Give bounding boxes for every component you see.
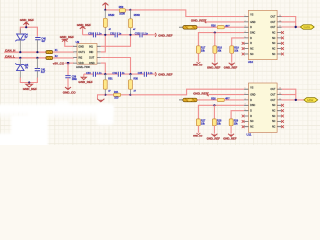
ground GND_CO col1 xyxy=(196,62,200,64)
svg-text:NC: NC xyxy=(272,54,276,56)
wire row5' with bend down to R29 xyxy=(231,111,244,119)
junction row4' xyxy=(213,104,215,106)
wire GND_REF port to U1 pin1 xyxy=(65,42,74,46)
resistor R26 horizontal xyxy=(217,98,224,101)
svg-text:5V: 5V xyxy=(25,36,28,39)
wire row5 with bend down to R19 xyxy=(232,38,244,46)
svg-text:1.1n: 1.1n xyxy=(148,72,153,75)
svg-text:DNC: DNC xyxy=(250,33,255,35)
svg-text:CAN1: CAN1 xyxy=(303,26,310,29)
wire R18 to ground xyxy=(214,53,216,62)
svg-text:NC: NC xyxy=(272,105,276,107)
svg-text:14: 14 xyxy=(279,88,281,90)
junction xyxy=(19,57,21,59)
svg-text:1.1n: 1.1n xyxy=(143,33,148,36)
capacitor C33 xyxy=(93,72,95,77)
resistor R52 vertical col1 xyxy=(104,10,106,34)
svg-text:OUT: OUT xyxy=(271,95,276,97)
wire GND_REF to IC1 pin2 xyxy=(206,21,244,23)
wire R27 to ground xyxy=(197,126,199,133)
svg-text:NC: NC xyxy=(272,38,276,40)
power port GND_REF top-left xyxy=(23,22,29,27)
junction xyxy=(104,34,106,36)
svg-text:1.1n: 1.1n xyxy=(97,72,102,75)
svg-text:3: 3 xyxy=(245,26,246,28)
svg-text:R50: R50 xyxy=(119,6,124,9)
bottom rail wire xyxy=(105,94,130,96)
svg-text:5V: 5V xyxy=(25,66,28,69)
sheet background xyxy=(0,0,320,145)
svg-text:GND_CO: GND_CO xyxy=(193,65,203,67)
digital isolator U1 xyxy=(73,44,101,65)
ferrite bead L1 xyxy=(46,51,53,54)
svg-text:GND_CO: GND_CO xyxy=(193,135,203,137)
junction xyxy=(104,94,106,96)
svg-text:R21: R21 xyxy=(114,91,119,94)
zener D1 xyxy=(15,34,25,41)
svg-text:NC: NC xyxy=(272,43,276,45)
resistor R55 vertical col2 lower xyxy=(130,74,132,95)
junction xyxy=(28,81,30,83)
ground GND_REF col2 lower xyxy=(211,134,217,137)
resistor R16 horizontal xyxy=(217,26,224,29)
junction xyxy=(19,51,21,53)
resistor R53 vertical col2 xyxy=(130,10,132,34)
zener D2 xyxy=(15,63,25,70)
capacitor C3 xyxy=(65,76,70,78)
power port GND_REF left of lower cap row xyxy=(83,74,85,77)
wire row4 with bend down to R17 xyxy=(198,33,244,46)
wire L4 to R26 xyxy=(197,99,217,101)
svg-text:GND_REF: GND_REF xyxy=(207,66,221,70)
svg-text:NC: NC xyxy=(250,127,254,129)
svg-text:12: 12 xyxy=(279,26,281,28)
resistor R28 pull col2 lower xyxy=(212,119,216,126)
wire R17 to ground xyxy=(197,53,199,62)
wire down to C3 xyxy=(67,63,69,76)
svg-text:GND: GND xyxy=(78,45,84,48)
ground arrow left of rail xyxy=(97,99,104,102)
svg-text:R56: R56 xyxy=(134,78,139,81)
capacitor C35 xyxy=(144,72,146,77)
svg-text:GND_REF: GND_REF xyxy=(60,35,75,39)
capacitor C30 xyxy=(93,32,95,37)
wires U2 OUT pins to port xyxy=(282,17,301,28)
wire junction down to R18 xyxy=(214,33,216,46)
svg-text:12: 12 xyxy=(279,98,281,100)
svg-text:CAN_H: CAN_H xyxy=(5,49,15,53)
svg-text:NC: NC xyxy=(272,49,276,51)
svg-text:OUT: OUT xyxy=(271,100,276,102)
svg-text:U9: U9 xyxy=(76,40,80,44)
ground arrow GND_CO xyxy=(65,87,71,90)
wire +5V_CO to U1 pin4 xyxy=(65,62,74,64)
svg-text:OUT: OUT xyxy=(271,16,276,18)
lower capacitor row wire xyxy=(84,73,155,75)
junction xyxy=(104,73,106,75)
svg-text:4n7: 4n7 xyxy=(41,40,46,43)
upper capacitor row wire xyxy=(83,34,155,36)
no-connect X marks U2 left xyxy=(242,42,245,56)
wire CAN_L bus xyxy=(4,57,46,59)
wire U1 pin1 to col2 up xyxy=(101,35,131,46)
svg-text:VS: VS xyxy=(250,15,254,17)
wire row4' with bend down to R27 xyxy=(198,105,244,119)
white erased region bottom-left xyxy=(0,101,114,150)
port CAN1 xyxy=(300,25,314,29)
svg-text:100n: 100n xyxy=(72,78,78,81)
svg-text:IND: IND xyxy=(89,51,94,54)
svg-text:IN1: IN1 xyxy=(89,45,94,48)
resistor R29 pull col3 lower xyxy=(229,119,233,126)
svg-text:GND_REF: GND_REF xyxy=(224,66,238,70)
svg-text:2: 2 xyxy=(245,20,246,22)
svg-text:C30: C30 xyxy=(88,33,93,36)
svg-text:CAN_L: CAN_L xyxy=(5,54,15,58)
wire bottom bridge xyxy=(20,78,37,83)
svg-text:U10: U10 xyxy=(248,60,254,64)
no-connect X marks U2 right xyxy=(281,31,284,55)
svg-text:OUT: OUT xyxy=(271,89,276,91)
wire U1 pin3 to col2 down xyxy=(101,58,131,74)
junction xyxy=(36,51,38,53)
svg-text:OUT: OUT xyxy=(89,57,95,60)
svg-text:GND_REF: GND_REF xyxy=(158,73,173,77)
junction xyxy=(104,9,106,11)
ferrite bead L2 xyxy=(46,56,53,59)
svg-text:4: 4 xyxy=(245,31,246,33)
svg-text:C32: C32 xyxy=(135,33,140,36)
junction xyxy=(295,26,297,28)
wire CAN_H bus xyxy=(4,51,46,53)
wire L2 to U1 xyxy=(53,57,74,59)
wires U3 OUT pins to port xyxy=(282,89,304,100)
svg-text:NC: NC xyxy=(272,127,276,129)
resistor R54 vertical col1 lower xyxy=(104,74,106,95)
svg-text:C34: C34 xyxy=(113,72,118,75)
svg-text:2: 2 xyxy=(245,93,246,95)
wire U1 pin4 to col1 down xyxy=(101,63,106,73)
svg-text:R51: R51 xyxy=(108,78,113,81)
svg-text:GND_REF: GND_REF xyxy=(158,33,173,37)
svg-text:R52R: R52R xyxy=(108,14,114,17)
junction xyxy=(129,9,131,11)
svg-text:R16: R16 xyxy=(211,25,216,28)
CAN transceiver U3 xyxy=(244,83,281,132)
svg-text:1.1n: 1.1n xyxy=(97,33,102,36)
capacitor C31 xyxy=(115,32,117,37)
wire R26 to IC2 pin3 xyxy=(224,99,244,101)
svg-text:DNC: DNC xyxy=(250,105,255,107)
ground GND_REF col2 xyxy=(212,63,218,66)
svg-text:IN2: IN2 xyxy=(78,57,83,60)
svg-text:GND_REF: GND_REF xyxy=(20,18,35,22)
junction xyxy=(36,57,38,59)
wire U1 pin2 to col1 up xyxy=(101,35,106,52)
wire R16 to IC1 pin3 xyxy=(224,26,244,28)
ground GND_REF col3 xyxy=(229,63,235,66)
power port GND_REF bottom arrow xyxy=(26,83,33,88)
power port GND_REF right of cap row xyxy=(155,33,156,37)
ground GND_CO col1 lower xyxy=(196,133,200,135)
wire junction down to R28 xyxy=(213,105,215,119)
svg-text:100R: 100R xyxy=(119,12,125,15)
svg-text:NC: NC xyxy=(272,111,276,113)
resistor R17 pull col1 xyxy=(196,46,200,54)
power port GND_REF right of lower cap row xyxy=(155,72,156,76)
svg-text:GND_REF: GND_REF xyxy=(77,23,92,27)
ferrite bead L4 xyxy=(179,99,183,101)
resistor R15 horizontal top xyxy=(106,9,131,11)
resistor R21 horizontal on rail xyxy=(114,93,121,96)
svg-text:NC: NC xyxy=(272,33,276,35)
wire L1 to U1 xyxy=(53,51,74,53)
svg-text:GND_REF: GND_REF xyxy=(23,87,38,91)
svg-text:+5V_CO: +5V_CO xyxy=(53,61,65,65)
capacitor C32 xyxy=(140,32,142,37)
resistor R27 pull col1 lower xyxy=(196,119,200,126)
junction square xyxy=(67,62,69,64)
svg-text:R26: R26 xyxy=(211,97,216,100)
svg-text:OUT: OUT xyxy=(271,22,276,24)
svg-text:OND: OND xyxy=(89,62,95,65)
svg-text:VS: VS xyxy=(250,87,254,89)
power port GND_REF left of cap row xyxy=(82,29,84,35)
wire to IC1 pin 1 xyxy=(131,10,245,17)
svg-text:1: 1 xyxy=(245,15,246,17)
svg-text:100: 100 xyxy=(114,96,119,99)
wire GND_REF to IC2 pin2 xyxy=(209,94,245,96)
wire L3 to R16 xyxy=(197,26,217,28)
wire R28 to ground xyxy=(213,126,215,134)
junction row4 xyxy=(214,31,216,33)
svg-text:OUT1: OUT1 xyxy=(78,51,85,54)
svg-text:14: 14 xyxy=(279,15,281,17)
svg-text:U11: U11 xyxy=(247,132,252,136)
svg-text:1: 1 xyxy=(245,88,246,90)
CAN transceiver U2 xyxy=(244,10,281,59)
wire top bridge xyxy=(20,27,37,37)
svg-text:3: 3 xyxy=(245,98,246,100)
wire R19 to ground xyxy=(231,53,233,62)
svg-text:VDD: VDD xyxy=(78,62,83,65)
svg-text:C35: C35 xyxy=(138,72,143,75)
junction xyxy=(295,99,297,101)
svg-text:C33: C33 xyxy=(86,72,91,75)
junction xyxy=(129,94,131,96)
svg-text:GND: GND xyxy=(250,22,255,24)
svg-text:GND_REF: GND_REF xyxy=(191,18,206,22)
svg-text:GND_CO: GND_CO xyxy=(63,91,77,95)
capacitor C34 xyxy=(118,72,120,77)
wire rail to IC2 pin 1 xyxy=(131,89,245,95)
svg-text:GND: GND xyxy=(250,95,255,97)
svg-text:NC: NC xyxy=(250,121,254,123)
svg-text:5: 5 xyxy=(245,36,246,38)
resistor R18 pull col2 xyxy=(213,46,217,54)
svg-text:ACML-7400: ACML-7400 xyxy=(76,65,90,69)
svg-text:GND_REF: GND_REF xyxy=(78,80,93,84)
wire rail to ground left xyxy=(98,95,106,99)
capacitor C2 xyxy=(35,69,40,71)
svg-text:NC: NC xyxy=(250,54,254,56)
svg-text:13: 13 xyxy=(279,20,281,22)
ferrite bead L3 xyxy=(179,26,183,28)
resistor R19 pull col3 xyxy=(230,46,234,54)
junction xyxy=(129,73,131,75)
port CAN2 xyxy=(304,98,318,102)
svg-text:R53R: R53R xyxy=(134,14,140,17)
no-connect X marks U3 right xyxy=(281,104,284,128)
wire C3 to ground xyxy=(67,78,69,87)
svg-text:NC: NC xyxy=(272,116,276,118)
junction xyxy=(129,34,131,36)
svg-text:GND_REF: GND_REF xyxy=(223,137,237,141)
capacitor C1 xyxy=(35,38,40,40)
svg-text:C31: C31 xyxy=(110,33,115,36)
svg-text:NC: NC xyxy=(272,121,276,123)
svg-text:CAN2: CAN2 xyxy=(307,99,314,102)
junction xyxy=(25,26,27,28)
svg-text:4n7: 4n7 xyxy=(41,71,46,74)
svg-text:NC: NC xyxy=(250,49,254,51)
svg-text:5: 5 xyxy=(245,109,246,111)
no-connect X marks U3 left xyxy=(242,115,245,129)
svg-text:OUT: OUT xyxy=(271,27,276,29)
svg-text:4: 4 xyxy=(245,104,246,106)
svg-text:GND_REF: GND_REF xyxy=(207,137,221,141)
svg-text:13: 13 xyxy=(279,93,281,95)
ground GND_REF col3 lower xyxy=(228,134,234,137)
wire R29 to ground xyxy=(230,126,232,134)
svg-text:GND_REF: GND_REF xyxy=(193,92,208,96)
power port +5V_CO top xyxy=(102,3,108,10)
